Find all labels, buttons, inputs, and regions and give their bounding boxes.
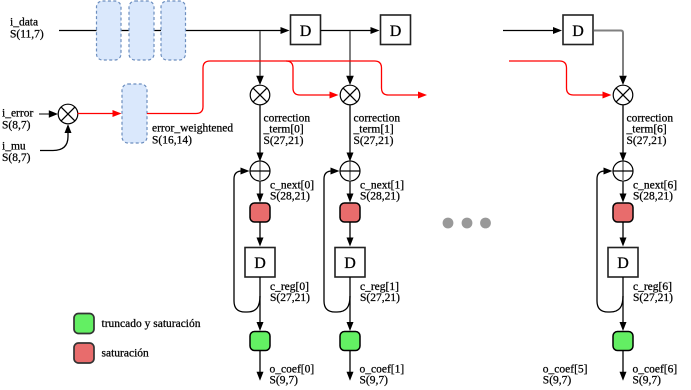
svg-text:S(27,21): S(27,21) <box>360 292 400 304</box>
multiplier M2 (tap 1) <box>340 85 360 105</box>
svg-text:S(11,7): S(11,7) <box>10 29 44 41</box>
wire o_coef[1] output <box>349 351 351 373</box>
svg-text:_term[1]: _term[1] <box>353 124 394 136</box>
adder A0 <box>250 161 270 182</box>
delay-line placeholder (dashed box 1) <box>97 1 122 60</box>
svg-text:S(8,7): S(8,7) <box>2 120 31 132</box>
wire feedback loop c_reg[1] to adder <box>324 171 350 312</box>
svg-text:i_data: i_data <box>10 17 38 29</box>
svg-text:D: D <box>390 23 402 40</box>
svg-text:D: D <box>572 23 584 40</box>
truncation+saturation block (green) tap 0 <box>250 332 270 351</box>
ellipsis dots (omitted taps) <box>443 218 491 229</box>
svg-text:error_weightened: error_weightened <box>152 123 233 135</box>
wire i_error into multiplier M0 <box>39 113 50 115</box>
svg-text:i_mu: i_mu <box>2 141 26 153</box>
wire c_reg[1] down to truncation <box>349 277 351 323</box>
svg-text:_term[0]: _term[0] <box>263 124 304 136</box>
svg-text:S(16,14): S(16,14) <box>152 135 192 147</box>
wire saturation to register <box>622 222 624 238</box>
svg-text:S(28,21): S(28,21) <box>270 191 310 203</box>
wire i_mu into multiplier M0 <box>40 133 68 151</box>
wire bus tap to multiplier M2 <box>349 31 351 76</box>
wire c_reg[0] down to truncation <box>259 277 261 323</box>
multiplier M0 (i_error x i_mu) <box>58 104 78 124</box>
wire bus tap to multiplier M1 <box>259 31 261 76</box>
register D1 <box>291 15 321 45</box>
svg-text:truncado y saturación: truncado y saturación <box>102 318 201 330</box>
wire o_coef[6] output <box>622 351 624 373</box>
truncation+saturation block (green) tap 1 <box>340 332 360 351</box>
svg-text:D: D <box>254 255 266 272</box>
saturation block (red) tap 1 <box>340 203 360 222</box>
svg-text:S(9,7): S(9,7) <box>543 375 572 387</box>
wire error_weightened trunk (red) <box>147 61 418 114</box>
saturation block (red) tap 0 <box>250 203 270 222</box>
svg-text:S(27,21): S(27,21) <box>270 292 310 304</box>
saturation block (red) tap 6 <box>613 203 633 222</box>
wire c_reg[6] down to truncation <box>622 277 624 323</box>
wire D3 output to multiplier M7 <box>594 31 624 76</box>
register c_reg[6] <box>608 248 638 278</box>
svg-text:S(27,21): S(27,21) <box>354 135 394 147</box>
svg-text:S(8,7): S(8,7) <box>2 152 31 164</box>
wire adder to saturation block <box>622 181 624 194</box>
delay-line placeholder (dashed box 3) <box>161 1 186 60</box>
wire red branch into multiplier M2 <box>286 61 330 95</box>
wire o_coef[0] output <box>259 351 261 373</box>
wire into D3 <box>503 30 554 32</box>
error_weightened placeholder (dashed box) <box>122 84 147 143</box>
register D3 <box>563 15 593 45</box>
svg-text:S(9,7): S(9,7) <box>360 375 389 387</box>
legend truncation+saturation swatch <box>74 314 94 334</box>
wire M0 to error_weightened (red) <box>78 113 114 115</box>
truncation+saturation block (green) tap 6 <box>613 332 633 351</box>
register D2 <box>381 15 411 45</box>
wire correction_term[6] to adder <box>622 105 624 153</box>
register c_reg[1] <box>335 248 365 278</box>
delay-line placeholder (dashed box 2) <box>129 1 154 60</box>
svg-text:S(9,7): S(9,7) <box>270 375 299 387</box>
adder A6 <box>613 161 633 182</box>
svg-text:S(9,7): S(9,7) <box>633 375 662 387</box>
adder A1 <box>340 161 360 182</box>
svg-text:_term[6]: _term[6] <box>626 124 667 136</box>
wire i_data bus <box>59 30 281 32</box>
wire red segment into multiplier M7 <box>509 61 603 95</box>
svg-text:D: D <box>344 255 356 272</box>
wire feedback loop c_reg[0] to adder <box>234 171 260 312</box>
register c_reg[0] <box>245 248 275 278</box>
svg-text:S(28,21): S(28,21) <box>360 191 400 203</box>
wire D1 to D2 <box>321 30 372 32</box>
svg-text:D: D <box>300 23 312 40</box>
multiplier M7 (tap 6) <box>613 85 633 105</box>
wire feedback loop c_reg[6] to adder <box>597 171 623 312</box>
svg-text:S(27,21): S(27,21) <box>264 135 304 147</box>
svg-text:S(27,21): S(27,21) <box>633 292 673 304</box>
svg-text:D: D <box>617 255 629 272</box>
svg-text:saturación: saturación <box>102 348 150 360</box>
wire correction_term[1] to adder <box>349 105 351 153</box>
legend saturation swatch <box>74 343 94 363</box>
wire correction_term[0] to adder <box>259 105 261 153</box>
wire adder to saturation block <box>349 181 351 194</box>
svg-text:S(28,21): S(28,21) <box>633 191 673 203</box>
wire saturation to register <box>349 222 351 238</box>
wire adder to saturation block <box>259 181 261 194</box>
svg-text:i_error: i_error <box>2 108 33 120</box>
svg-text:S(27,21): S(27,21) <box>627 135 667 147</box>
wire saturation to register <box>259 222 261 238</box>
multiplier M1 (tap 0) <box>250 85 270 105</box>
